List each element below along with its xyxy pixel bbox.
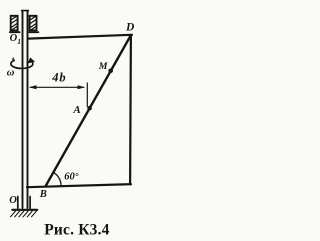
svg-text:4: 4: [51, 70, 58, 84]
svg-text:O: O: [9, 195, 17, 206]
svg-text:60°: 60°: [64, 172, 79, 183]
svg-text:Рис. К3.4: Рис. К3.4: [44, 222, 109, 239]
svg-text:ω: ω: [7, 67, 15, 78]
svg-text:A: A: [72, 104, 80, 116]
svg-text:M: M: [98, 61, 108, 72]
svg-text:D: D: [125, 22, 135, 34]
svg-text:O1: O1: [10, 33, 21, 46]
svg-text:B: B: [39, 189, 47, 200]
svg-text:b: b: [59, 70, 65, 84]
